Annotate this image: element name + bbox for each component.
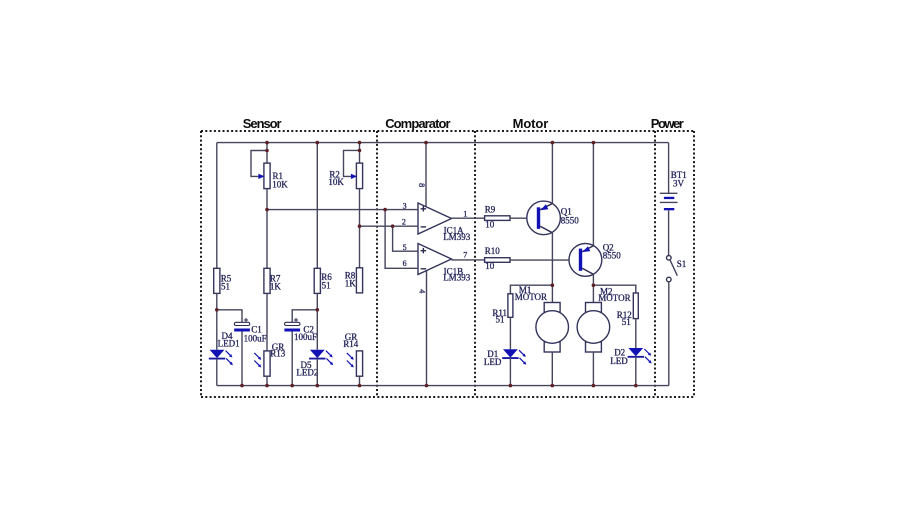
LED D1 bbox=[484, 349, 526, 367]
wire M2 to ground rail bbox=[592, 352, 594, 386]
wire IC1A output to R9 bbox=[452, 217, 485, 219]
capacitor C1 bbox=[234, 318, 266, 343]
LED D4 bbox=[209, 331, 240, 365]
svg-text:10: 10 bbox=[485, 219, 495, 229]
potentiometer R2 bbox=[328, 143, 362, 189]
battery BT1 bbox=[660, 170, 687, 210]
svg-text:4: 4 bbox=[418, 289, 427, 293]
svg-text:Power: Power bbox=[651, 116, 684, 131]
transistor Q2 bbox=[569, 243, 621, 277]
svg-text:51: 51 bbox=[496, 315, 505, 325]
wire node to C1 bbox=[217, 310, 242, 322]
wire R2 node to pin 2 bbox=[360, 225, 419, 227]
svg-text:1K: 1K bbox=[345, 279, 357, 289]
wire D1 to ground rail bbox=[509, 358, 511, 386]
svg-text:10K: 10K bbox=[328, 177, 344, 187]
wire D5 to ground rail bbox=[316, 359, 318, 386]
svg-text:R10: R10 bbox=[485, 246, 501, 256]
wire pin 4 ground bbox=[426, 271, 428, 386]
svg-text:R9: R9 bbox=[485, 205, 496, 215]
wire R10 to Q2 base bbox=[510, 259, 579, 261]
svg-text:5: 5 bbox=[403, 243, 407, 252]
svg-text:3: 3 bbox=[403, 201, 407, 210]
svg-text:10K: 10K bbox=[272, 180, 288, 190]
junction dots ground rail bbox=[240, 384, 637, 388]
svg-text:MOTOR: MOTOR bbox=[598, 293, 630, 303]
wire R14 to ground rail bbox=[359, 376, 361, 385]
resistor R8 bbox=[345, 268, 363, 293]
svg-text:100uF: 100uF bbox=[294, 332, 317, 342]
svg-text:51: 51 bbox=[221, 282, 230, 292]
wire node to R12 bbox=[593, 285, 635, 293]
wire bottom ground rail bbox=[217, 385, 669, 387]
svg-text:51: 51 bbox=[322, 281, 331, 291]
wire top power rail bbox=[217, 142, 669, 144]
svg-text:10: 10 bbox=[485, 261, 495, 271]
dashed frame outer box bbox=[201, 130, 694, 132]
resistor R12 bbox=[617, 293, 639, 327]
potentiometer R1 bbox=[251, 143, 288, 190]
wire R6 bottom to D5 bbox=[316, 293, 318, 349]
dashed separator Motor/Power bbox=[654, 131, 656, 397]
svg-text:3V: 3V bbox=[673, 178, 685, 188]
resistor R5 bbox=[214, 268, 232, 293]
dashed separator Sensor/Comparator bbox=[376, 131, 378, 397]
capacitor C2 bbox=[284, 318, 317, 342]
svg-text:51: 51 bbox=[622, 317, 631, 327]
wire R1 node to pin 3 bbox=[267, 209, 418, 211]
wire node to C2 bbox=[292, 310, 317, 322]
transistor Q1 bbox=[527, 201, 580, 235]
svg-text:Sensor: Sensor bbox=[243, 116, 282, 131]
svg-text:7: 7 bbox=[463, 250, 467, 259]
wire D4 to ground rail bbox=[216, 359, 218, 386]
wire R1 bottom to R7 bbox=[266, 189, 268, 269]
wire Q2 collector down bbox=[592, 274, 594, 285]
svg-text:Motor: Motor bbox=[513, 116, 549, 131]
resistor R11 bbox=[492, 294, 513, 325]
wire R13 to ground rail bbox=[266, 376, 268, 385]
wire C2 to ground rail bbox=[291, 332, 293, 386]
motor M1 bbox=[515, 285, 569, 352]
wire pin 8 supply bbox=[425, 143, 427, 207]
wire left rail upper (to R5) bbox=[216, 143, 218, 269]
wire R11 to D1 bbox=[509, 317, 511, 349]
photoresistor GR R13 bbox=[254, 342, 285, 376]
resistor R7 bbox=[264, 268, 282, 293]
motor M2 bbox=[577, 285, 631, 352]
svg-text:LED: LED bbox=[484, 357, 502, 367]
wire Q1 emitter to rail bbox=[551, 143, 553, 204]
dashed separator Comparator/Motor bbox=[474, 131, 476, 397]
svg-text:LED1: LED1 bbox=[218, 338, 240, 348]
svg-text:100uF: 100uF bbox=[244, 333, 267, 343]
wire Q2 emitter to rail bbox=[592, 143, 594, 246]
svg-text:LM393: LM393 bbox=[443, 272, 471, 282]
resistor R6 bbox=[314, 268, 332, 293]
wire branch node B to pin 5 bbox=[393, 226, 418, 251]
op-amp U1 IC1A bbox=[418, 203, 471, 242]
junction dots wiper nodes bbox=[265, 149, 361, 153]
resistor R10 bbox=[485, 246, 510, 271]
svg-text:2: 2 bbox=[402, 217, 406, 226]
wire node to R11 bbox=[510, 285, 552, 294]
resistor R9 bbox=[485, 205, 510, 230]
LED D2 bbox=[610, 348, 651, 367]
svg-text:LM393: LM393 bbox=[443, 232, 471, 242]
svg-text:8550: 8550 bbox=[561, 215, 580, 225]
wire R2 bottom to R8 bbox=[359, 189, 361, 268]
wire C1 to ground rail bbox=[241, 332, 243, 386]
svg-text:R14: R14 bbox=[343, 339, 359, 349]
op-amp U1 IC1B bbox=[418, 244, 471, 283]
wire rail to battery bbox=[668, 143, 670, 194]
svg-text:8550: 8550 bbox=[603, 251, 622, 261]
wire Q1 collector down bbox=[551, 233, 553, 285]
svg-text:LED: LED bbox=[610, 356, 628, 366]
photoresistor GR R14 bbox=[343, 332, 362, 376]
wire R9 to Q1 base bbox=[510, 217, 537, 219]
wire D2 to ground rail bbox=[635, 357, 637, 386]
svg-text:MOTOR: MOTOR bbox=[515, 292, 547, 302]
wire IC1B output to R10 bbox=[452, 259, 485, 261]
wire R7 bottom to R13 bbox=[266, 293, 268, 351]
svg-text:Comparator: Comparator bbox=[385, 116, 450, 131]
switch S1 bbox=[667, 255, 687, 281]
svg-text:6: 6 bbox=[403, 259, 407, 268]
svg-text:8: 8 bbox=[417, 183, 426, 187]
junction dots sensor mid bbox=[215, 308, 319, 312]
svg-text:1K: 1K bbox=[270, 282, 282, 292]
wire R5 bottom to D4 bbox=[216, 293, 218, 349]
junction dots top rail bbox=[265, 141, 595, 145]
svg-text:LED2: LED2 bbox=[296, 368, 318, 378]
svg-text:1: 1 bbox=[463, 210, 467, 219]
wire branch node A to pin 6 bbox=[385, 210, 418, 269]
wire R6 column top bbox=[316, 143, 318, 269]
wire M1 to ground rail bbox=[551, 352, 553, 386]
wire switch to ground rail bbox=[668, 282, 670, 386]
svg-text:S1: S1 bbox=[677, 259, 687, 269]
LED D5 bbox=[296, 350, 333, 378]
wire R12 to D2 bbox=[635, 319, 637, 348]
wire battery to switch bbox=[668, 210, 670, 255]
svg-text:R13: R13 bbox=[270, 349, 286, 359]
junction dots comparator inputs bbox=[265, 208, 394, 228]
junction dots motor nodes bbox=[551, 283, 596, 287]
